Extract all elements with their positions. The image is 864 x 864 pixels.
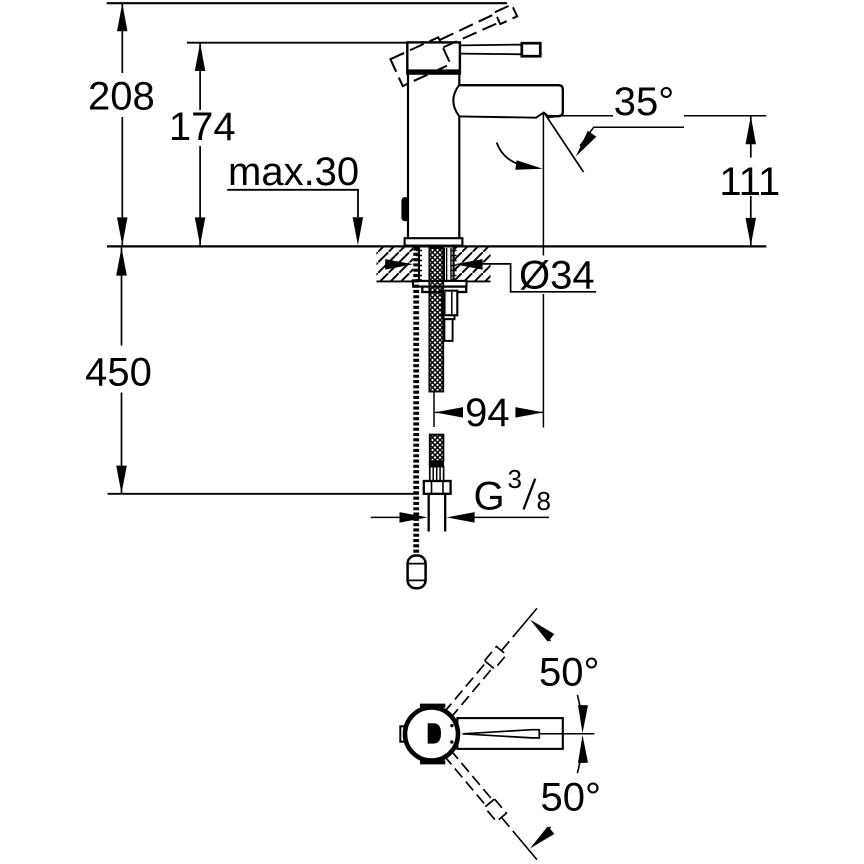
top view: phantom lever upper 50 deg — [442, 604, 542, 719]
top view: screw dots — [450, 724, 453, 727]
top view: lever slot — [463, 730, 540, 738]
pop-up rod knuckle on body back — [401, 197, 408, 221]
svg-text:50°: 50° — [541, 775, 602, 819]
G 3/8 dimension arrows — [371, 516, 400, 518]
phantom handle (raised, dashed) — [390, 4, 523, 86]
faucet body left edge — [407, 74, 409, 239]
svg-text:3: 3 — [508, 464, 522, 494]
svg-text:Ø34: Ø34 — [519, 253, 595, 297]
35 deg leader with arrow — [593, 126, 684, 128]
handle paddle (solid) — [522, 43, 541, 56]
top view: phantom lever lower 50 deg — [442, 749, 542, 864]
supply hose braided section (lower, after break) — [430, 435, 444, 462]
top view: left clip nub — [400, 726, 408, 741]
svg-text:8: 8 — [537, 486, 551, 516]
dimension 111 line — [750, 116, 752, 157]
top view: top flat — [420, 704, 445, 708]
pull rod knob — [408, 556, 426, 589]
svg-text:94: 94 — [465, 391, 510, 435]
second supply hose connector — [442, 291, 457, 316]
counter bottom line left — [377, 280, 414, 282]
counter top line — [107, 245, 766, 247]
top view: centerline — [540, 733, 594, 735]
top reference line (handle tip level) — [107, 2, 507, 4]
base flange — [405, 238, 463, 245]
spout underside with aerator notch — [459, 113, 556, 118]
top view: bottom flat — [420, 760, 445, 764]
svg-text:50°: 50° — [539, 650, 600, 694]
pop-up pull rod (dotted) — [413, 248, 419, 557]
threaded tube left wall with ticks — [418, 247, 420, 281]
50 deg upper arc arrows — [577, 695, 582, 725]
top view: lever rectangle — [457, 718, 562, 749]
counter bottom line right — [455, 280, 491, 282]
G3/8 threaded stud walls — [428, 494, 430, 532]
35 deg stream diagonal line — [544, 112, 584, 172]
counter hatching left — [377, 247, 414, 281]
spout top reference line (174 level) — [187, 42, 407, 44]
svg-text:35°: 35° — [614, 80, 675, 124]
stream vertical extension line (gap at label) — [542, 112, 544, 255]
dimension 174 line — [199, 43, 201, 110]
450 bottom reference line — [108, 493, 419, 495]
top view: D-shaped hub (filled) — [428, 723, 441, 743]
svg-text:174: 174 — [169, 105, 236, 149]
swivel arc arrow (side view) — [497, 143, 533, 168]
faucet cap (handle base) — [407, 42, 460, 73]
hose crimp sleeve — [430, 467, 444, 481]
spout-body fillet arc — [453, 85, 459, 117]
threaded tube right wall with ticks — [453, 247, 455, 281]
washer under counter — [413, 281, 467, 287]
max.30 underline and leader — [227, 190, 358, 217]
second hose tube walls inside — [443, 248, 445, 291]
svg-text:111: 111 — [719, 160, 780, 204]
faucet body right edge below spout — [458, 116, 460, 238]
connector hex nut — [424, 481, 451, 494]
handle lever rod (solid) — [460, 44, 522, 47]
faucet body right edge above spout — [458, 74, 460, 85]
dia 34 arrows at hole edges — [385, 259, 413, 270]
svg-text:450: 450 — [85, 351, 152, 395]
svg-text:max.30: max.30 — [228, 150, 359, 194]
dimension 208 line — [121, 3, 123, 73]
counter hatching right — [455, 247, 491, 281]
dimension 94 — [433, 391, 435, 428]
svg-text:208: 208 — [88, 74, 155, 118]
svg-text:G: G — [474, 475, 505, 519]
lock nut — [422, 287, 466, 292]
supply hose braided section (upper) — [429, 248, 443, 392]
dimension 450 line — [121, 248, 123, 346]
35 deg reference line — [546, 115, 613, 117]
hose ferrule — [429, 461, 444, 466]
spout outline — [459, 85, 563, 116]
50 deg lower arc arrows — [577, 743, 582, 773]
top view: faucet body circle — [405, 708, 458, 761]
dia 34 leader — [482, 264, 596, 292]
